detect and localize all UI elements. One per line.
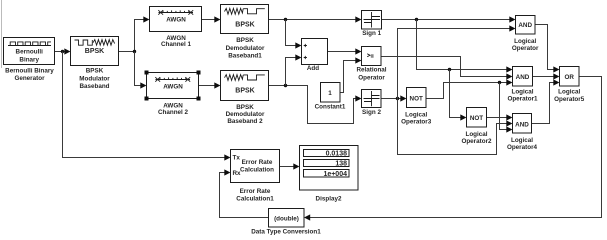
- svg-text:BPSK: BPSK: [86, 68, 104, 75]
- svg-text:Error Rate: Error Rate: [242, 159, 273, 166]
- block Display2: [300, 146, 359, 203]
- svg-text:Calculation: Calculation: [240, 166, 274, 173]
- wire Data Type Conversion1 to Error Rate Calculation Rx: [220, 169, 269, 217]
- svg-text:AWGN: AWGN: [163, 84, 183, 91]
- svg-text:AND: AND: [516, 74, 530, 81]
- block Sign 2: [362, 90, 382, 117]
- wire NOT Logical Operator2 to AND Logical Operator4 input 1: [487, 114, 513, 120]
- wire AWGN Channel 1 to BPSK Demodulator Baseband1: [202, 16, 221, 22]
- block Data Type Conversion1: [251, 209, 321, 236]
- svg-text:Logical: Logical: [514, 38, 536, 45]
- svg-text:Operator4: Operator4: [507, 144, 538, 151]
- wire AND Logical Operator4 to OR Logical Operator5 input 3: [532, 79, 560, 123]
- wire Sign 2 to NOT Logical Operator3: [381, 95, 407, 101]
- svg-text:Modulator: Modulator: [79, 75, 110, 82]
- block AND Logical Operator4: [507, 114, 538, 152]
- svg-text:Operator5: Operator5: [554, 96, 585, 103]
- wire Constant1 to Relational Operator input 2: [340, 57, 362, 92]
- block NOT Logical Operator3: [401, 88, 432, 126]
- svg-text:Relational: Relational: [356, 67, 386, 74]
- svg-text:Channel 1: Channel 1: [161, 41, 192, 48]
- svg-text:Binary: Binary: [19, 56, 39, 63]
- wire AWGN Channel 2 to BPSK Demodulator Baseband 2: [199, 82, 221, 88]
- svg-text:Logical: Logical: [511, 137, 533, 144]
- wire NOT3 branch down to AND Logical Operator4 input 3: [500, 83, 513, 133]
- node junction demodulator2 output branch: [284, 84, 287, 87]
- svg-text:Sign 2: Sign 2: [362, 109, 381, 116]
- svg-text:BPSK: BPSK: [235, 88, 254, 95]
- wire Error Rate Calculation to Display2: [280, 163, 300, 169]
- svg-text:Operator1: Operator1: [507, 96, 538, 103]
- wire demodulator2 branch up to Add input 2: [286, 54, 302, 85]
- svg-text:NOT: NOT: [410, 96, 423, 103]
- node junction Sign 2 output branch: [396, 97, 399, 100]
- svg-text:1e+004: 1e+004: [323, 171, 347, 178]
- svg-text:Logical: Logical: [558, 88, 580, 95]
- wire Add to Relational Operator input 1: [328, 48, 362, 54]
- block AWGN Channel 1: [150, 7, 202, 48]
- svg-text:Operator3: Operator3: [401, 119, 432, 126]
- block Relational Operator: [356, 47, 386, 82]
- wire Sign 2 branch up to AND Logical Operator input 2: [398, 25, 516, 98]
- wire Sign 1 branch down to AND Logical Operator1 input 1: [417, 20, 513, 73]
- wire AND Logical Operator to OR Logical Operator5 input 1: [535, 25, 560, 73]
- node junction branch to NOT Logical Operator2: [448, 68, 451, 71]
- block Add: [302, 39, 328, 73]
- wire Sign 2 branch around to AND Logical Operator4 input 2: [398, 99, 513, 155]
- block Bernoulli Binary Generator: [4, 38, 55, 82]
- svg-text:Channel 2: Channel 2: [158, 109, 189, 116]
- svg-text:Data Type Conversion1: Data Type Conversion1: [251, 228, 321, 235]
- svg-text:Bernoulli Binary: Bernoulli Binary: [5, 67, 54, 74]
- block BPSK Demodulator Baseband 2: [221, 71, 269, 126]
- wire OR Logical Operator5 to Data Type Conversion1: [304, 77, 602, 221]
- svg-text:Baseband1: Baseband1: [228, 52, 262, 59]
- svg-text:BPSK: BPSK: [235, 21, 254, 28]
- svg-text:Demodulator: Demodulator: [226, 45, 265, 52]
- block Sign 1: [362, 11, 382, 38]
- svg-text:Operator2: Operator2: [461, 138, 492, 145]
- svg-text:1: 1: [328, 90, 332, 97]
- svg-text:Logical: Logical: [465, 131, 487, 138]
- svg-text:OR: OR: [564, 74, 574, 81]
- svg-text:Operator: Operator: [512, 45, 539, 52]
- svg-text:Logical: Logical: [511, 88, 533, 95]
- svg-text:Generator: Generator: [14, 75, 45, 82]
- wire Sign 1 to AND Logical Operator input 1: [382, 16, 516, 22]
- node junction demodulator1 output branch: [284, 18, 287, 21]
- block OR Logical Operator5: [554, 67, 585, 103]
- wire Demodulator Baseband 2 to Sign 2: [269, 86, 362, 124]
- block AND Logical Operator: [512, 16, 539, 53]
- block BPSK Modulator Baseband: [71, 37, 119, 91]
- svg-text:Bernoulli: Bernoulli: [16, 49, 44, 56]
- wire NOT Logical Operator3 to AND Logical Operator1 input 3: [426, 79, 513, 98]
- block Error Rate Calculation1: [231, 150, 280, 203]
- svg-text:NOT: NOT: [470, 115, 483, 122]
- block Constant1: [315, 83, 346, 111]
- svg-text:BPSK: BPSK: [236, 37, 254, 44]
- window border artifact: [1, 0, 3, 68]
- wire generator branch down to Error Rate Calculation Tx: [63, 52, 231, 161]
- svg-text:AND: AND: [518, 22, 532, 29]
- svg-text:Error Rate: Error Rate: [240, 188, 271, 195]
- node junction generator output branch: [61, 50, 64, 53]
- svg-text:AND: AND: [515, 121, 529, 128]
- wire AND Logical Operator1 to OR Logical Operator5 input 2: [533, 73, 560, 79]
- svg-text:Add: Add: [307, 65, 319, 72]
- svg-text:Display2: Display2: [316, 196, 342, 203]
- svg-text:Baseband 2: Baseband 2: [227, 118, 263, 125]
- svg-text:BPSK: BPSK: [85, 48, 104, 55]
- svg-text:AWGN: AWGN: [166, 17, 186, 24]
- svg-text:Constant1: Constant1: [315, 103, 346, 110]
- svg-text:Baseband: Baseband: [79, 83, 109, 90]
- node junction NOT3 output branch: [498, 81, 501, 84]
- svg-text:0.0138: 0.0138: [326, 151, 348, 158]
- wire branch down to NOT Logical Operator2: [450, 70, 467, 121]
- node junction Sign 1 output branch: [415, 18, 418, 21]
- svg-text:Demodulator: Demodulator: [226, 111, 265, 118]
- svg-text:BPSK: BPSK: [236, 104, 254, 111]
- wire BPSK Modulator to AWGN Channel 1: [119, 16, 150, 51]
- node junction modulator output branch: [133, 50, 136, 53]
- svg-text:Calculation1: Calculation1: [236, 195, 274, 202]
- svg-text:138: 138: [335, 161, 347, 168]
- wire demodulator1 branch down to Add input 1: [286, 20, 302, 49]
- svg-text:Logical: Logical: [405, 111, 427, 118]
- wire Bernoulli Binary Generator to BPSK Modulator: [55, 48, 71, 54]
- svg-text:Tx: Tx: [233, 155, 241, 162]
- wire Demodulator Baseband1 to Sign 1: [269, 16, 362, 22]
- wire modulator branch down to AWGN Channel 2: [135, 52, 147, 89]
- svg-text:(double): (double): [274, 215, 299, 222]
- wire Relational Operator to AND Logical Operator1 input 2: [381, 57, 513, 80]
- block NOT Logical Operator2: [461, 108, 492, 146]
- svg-text:Operator: Operator: [358, 75, 385, 82]
- svg-text:Sign 1: Sign 1: [362, 30, 381, 37]
- block AND Logical Operator1: [507, 67, 538, 103]
- block AWGN Channel 2 (selected, with handles): [145, 71, 201, 116]
- block BPSK Demodulator Baseband1: [221, 5, 269, 60]
